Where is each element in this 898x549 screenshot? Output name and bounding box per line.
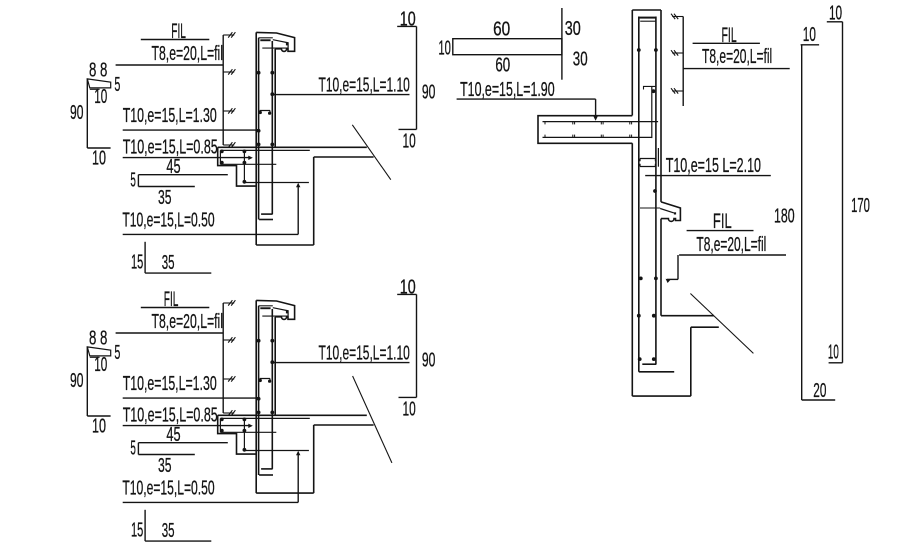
rebar dots: [637, 48, 641, 52]
detail 2 footing right edge: [313, 425, 315, 493]
detail 1 vertical rebar right: [271, 41, 273, 214]
detail 1 footing bottom: [256, 244, 314, 246]
svg-text:FIL: FIL: [171, 20, 186, 43]
flange bar ticks: [544, 122, 546, 125]
vertical rebar left: [638, 17, 640, 372]
svg-text:T8,e=20,L=fil: T8,e=20,L=fil: [702, 46, 772, 68]
ground line right: [661, 315, 714, 317]
detail 1 footing right edge: [313, 157, 315, 245]
footing bottom: [632, 395, 691, 397]
svg-text:180: 180: [774, 206, 795, 228]
svg-text:60: 60: [495, 55, 510, 77]
mid label leader: [677, 255, 679, 279]
footing right edge: [690, 327, 692, 396]
svg-text:10: 10: [829, 2, 842, 24]
detail 2 footing bottom: [256, 492, 314, 494]
detail 1 top-left: wall edge section: [70, 9, 435, 275]
flange slab outline: [538, 116, 632, 144]
detail 2 bottom-left: wall edge section: [70, 277, 435, 543]
lap splice marks mid-wall: [640, 159, 655, 162]
detail 2 rebar hooks: [261, 468, 273, 470]
svg-text:30: 30: [573, 49, 588, 71]
svg-text:10: 10: [438, 38, 451, 60]
detail 1 vertical rebar left: [258, 38, 260, 220]
rebar bottom hook right: [642, 363, 656, 365]
lap bar from flange: [651, 86, 653, 138]
detail 1 wall outer face left: [255, 32, 257, 245]
flange bottom bar: [543, 136, 652, 138]
svg-text:10: 10: [803, 24, 816, 46]
detail 2 wall outer face left: [255, 300, 257, 493]
detail 1 ground break line: [352, 125, 391, 180]
rebar bottom hook left: [639, 371, 674, 373]
bar bending sketch 60x60: [453, 39, 562, 55]
detail 2 vertical rebar right: [271, 309, 273, 469]
detail 3: full height wall section: [438, 2, 869, 402]
svg-text:170: 170: [851, 195, 870, 217]
vertical rebar right: [655, 17, 657, 365]
svg-text:30: 30: [565, 18, 581, 40]
svg-text:60: 60: [493, 18, 510, 40]
top horizontal bar (black): [639, 17, 656, 19]
wall outer face left: [631, 10, 633, 116]
svg-text:T10,e=15 L=2.10: T10,e=15 L=2.10: [666, 155, 761, 177]
svg-text:FIL: FIL: [713, 210, 732, 233]
wall outer face right: [660, 10, 662, 202]
ledge bar hook line: [640, 207, 660, 209]
flange top bar: [543, 121, 659, 123]
ground break line: [690, 294, 753, 354]
footing step line: [691, 326, 719, 328]
wall top edge: [632, 9, 661, 11]
detail 2 ground break line: [353, 376, 392, 463]
svg-text:FIL: FIL: [164, 288, 179, 311]
svg-text:T10,e=15,L=1.90: T10,e=15,L=1.90: [460, 79, 554, 101]
svg-text:20: 20: [813, 380, 826, 402]
detail 1 rebar hooks: [261, 213, 273, 215]
svg-text:T8,e=20,L=fil: T8,e=20,L=fil: [696, 234, 766, 256]
svg-text:10: 10: [828, 341, 839, 363]
drip ledge corbel: [661, 202, 680, 222]
ledge inner slope: [660, 209, 674, 213]
detail 2 vertical rebar left: [258, 306, 260, 475]
leader with ticks: [682, 17, 684, 107]
